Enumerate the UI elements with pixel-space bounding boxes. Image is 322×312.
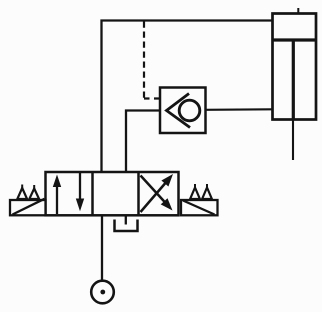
directional valve DV1 body (3 positions) [46, 172, 179, 215]
wire: pressure port P down to source [101, 215, 103, 280]
cylinder vent tick on cap [297, 8, 299, 13]
wire: tank port T stub [125, 215, 127, 224]
solenoid S1 triangle marks [17, 185, 39, 200]
pressure source circle [91, 281, 114, 304]
check valve V1 (pilot-operated) enclosure [160, 88, 206, 134]
check valve ball [179, 100, 200, 121]
solenoid S1 diagonal [13, 199, 45, 215]
solenoid S1 (left actuator) box [10, 200, 46, 215]
solenoid S2 triangle marks [190, 184, 212, 199]
DV1 right position crossed arrow (up-right) [141, 174, 174, 212]
tank symbol [115, 220, 138, 232]
cylinder C1 barrel [273, 14, 317, 120]
wire: check valve outlet to cylinder rod-side port [206, 108, 273, 111]
DV1 right position crossed arrow (down-right) [141, 176, 173, 211]
cylinder piston [272, 38, 318, 41]
DV1 left position up arrow [53, 175, 61, 215]
cylinder piston rod [291, 41, 294, 160]
check valve seat chevron [167, 94, 191, 128]
wire: valve port B up then right to check valve inlet [126, 111, 160, 173]
DV1 left position down arrow [76, 173, 84, 211]
wire: valve port A up and across top to cylinder cap port [102, 21, 273, 173]
solenoid S2 (right actuator) box [181, 200, 218, 215]
wire: dashed pilot line from top line down to check valve [144, 22, 160, 99]
solenoid S2 diagonal [183, 201, 215, 215]
